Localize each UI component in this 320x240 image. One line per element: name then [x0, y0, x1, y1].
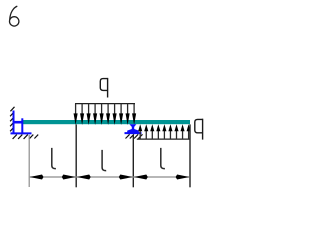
label l (segment 2)	[102, 150, 106, 171]
extension line (x=76)	[75, 124, 77, 187]
middle support hatching	[126, 134, 143, 138]
left support: wall hatching	[10, 107, 14, 132]
label l (segment 3)	[161, 148, 165, 169]
label 6 (problem number)	[10, 6, 19, 26]
distributed load q (right span) arrows	[138, 124, 191, 139]
middle roller support (blue)	[127, 124, 139, 132]
distributed load q (middle span) arrows	[74, 104, 137, 125]
dimension arrowheads	[30, 175, 190, 180]
distributed load q (right span, upward) bottom line	[137, 138, 190, 140]
label q (right load)	[195, 119, 203, 140]
extension line (x=133)	[132, 135, 134, 187]
extension line (left, x=29)	[28, 135, 30, 187]
left support: floor hatching	[13, 135, 39, 139]
left support: sliding clamp box (blue)	[11, 111, 32, 135]
distributed load q (middle span, downward) top line	[75, 103, 135, 105]
label l (segment 1)	[52, 148, 56, 169]
beam	[23, 120, 190, 124]
label q (middle load)	[100, 78, 107, 98]
extension line (x=190)	[189, 124, 191, 187]
dimension line shaft	[30, 176, 190, 178]
